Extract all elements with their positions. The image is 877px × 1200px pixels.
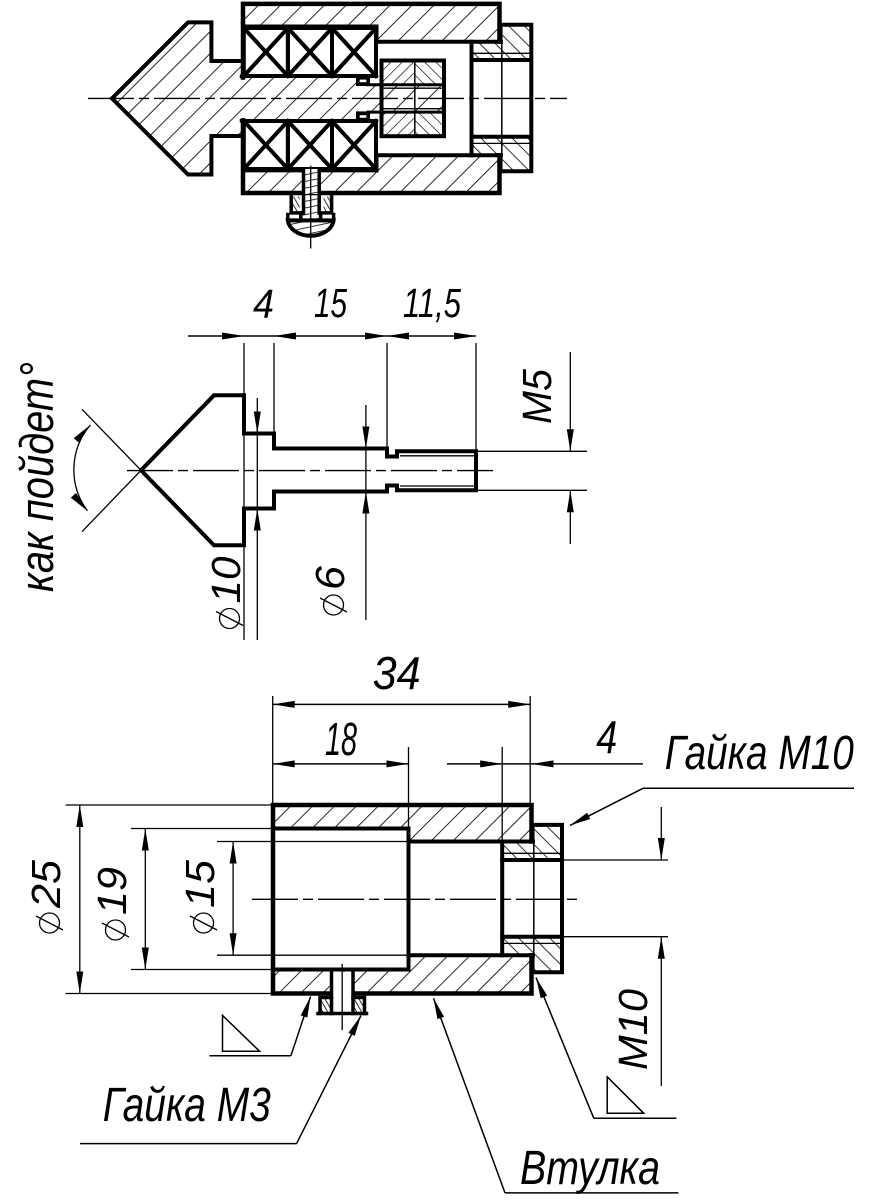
- centerline axis top view: [88, 97, 567, 99]
- phi19 dimension: [131, 828, 277, 830]
- retaining ring bottom: [356, 111, 370, 120]
- svg-text:как пойдет°: как пойдет°: [10, 362, 63, 592]
- M3 screw centerline: [341, 964, 343, 1030]
- nut M10 flange: [533, 825, 535, 972]
- M3 screw shank thread: [304, 170, 320, 213]
- phi10 dimension: [256, 398, 258, 640]
- dimension 34: [272, 696, 274, 805]
- angle extension thin lines: [82, 409, 150, 479]
- striker (боёк) cone+collar hatched body: [112, 22, 242, 174]
- svg-text:М10: М10: [610, 989, 656, 1070]
- svg-text:18: 18: [325, 713, 357, 765]
- striker part outline: [141, 395, 476, 545]
- M5 dimension: [477, 450, 587, 452]
- M3 nut: [320, 998, 365, 1014]
- M3 hole white: [332, 972, 354, 997]
- nut M10 insert face: [470, 42, 474, 156]
- M3 hole walls: [330, 970, 334, 1014]
- phi25 dimension: [66, 804, 274, 806]
- nut M10 thread lines: [502, 858, 562, 862]
- bore phi15 lines: [277, 841, 409, 843]
- svg-text:19: 19: [89, 867, 135, 915]
- nut M10 insert hatch bottom: [472, 137, 532, 172]
- nut M10 thread lines: [472, 58, 532, 62]
- retaining ring top: [356, 77, 370, 86]
- M3 screw hole white: [304, 169, 320, 194]
- nut M10 flange: [501, 25, 503, 172]
- svg-text:4: 4: [596, 711, 617, 763]
- sleeve bottom wall hatch: [273, 955, 532, 993]
- phi6 dimension: [365, 405, 367, 620]
- M3 screw centerline: [310, 166, 312, 249]
- svg-text:Гайка М10: Гайка М10: [665, 727, 854, 780]
- nut M10 insert hatch top: [472, 25, 532, 60]
- M3 nut under sleeve: [291, 197, 331, 213]
- angle dimension arc: [74, 425, 91, 511]
- dimension 4: [501, 747, 503, 842]
- nut M10 hatch top: [502, 825, 562, 860]
- sleeve outline: [243, 4, 500, 193]
- extension lines: [243, 343, 245, 640]
- nut M10 insert face: [500, 842, 504, 956]
- shaft phi6 lines: [242, 74, 357, 78]
- M5 thread thin lines: [400, 455, 476, 457]
- svg-text:15: 15: [177, 860, 223, 908]
- M5 nut and washer on striker end: [382, 61, 445, 137]
- svg-text:Втулка: Втулка: [520, 1142, 660, 1195]
- phi15 dimension: [217, 841, 277, 843]
- nut M10 hatch bottom: [502, 937, 562, 973]
- sleeve bore phi15 lines: [377, 40, 502, 44]
- svg-text:М5: М5: [514, 369, 560, 424]
- surface triangle right: [607, 1077, 644, 1114]
- svg-text:Гайка М3: Гайка М3: [103, 1079, 271, 1132]
- centerline axis bottom view: [252, 898, 580, 900]
- bore phi19 lines: [277, 827, 409, 831]
- svg-text:6: 6: [307, 566, 353, 590]
- surface triangle left: [223, 1015, 260, 1051]
- M10 dimension: [562, 859, 668, 861]
- spring section boxes bottom row: [244, 121, 376, 169]
- svg-text:11,5: 11,5: [403, 280, 461, 326]
- dimension 18: [408, 747, 410, 829]
- striker shaft hatched: [242, 76, 369, 121]
- bore step face: [407, 829, 411, 970]
- svg-text:34: 34: [373, 647, 421, 699]
- M5 thread end lines: [368, 83, 444, 86]
- dimension line 4 / 15 / 11,5: [188, 335, 476, 337]
- spring section boxes top row: [244, 28, 376, 76]
- sleeve bottom wall hatch: [241, 155, 500, 193]
- sleeve outline: [273, 805, 532, 994]
- label как пойдет: [10, 362, 63, 592]
- svg-text:25: 25: [23, 860, 69, 909]
- svg-text:10: 10: [203, 556, 249, 603]
- sleeve top wall hatch: [273, 805, 532, 842]
- centerline axis middle view: [127, 470, 493, 472]
- svg-text:15: 15: [314, 280, 347, 326]
- sleeve bore phi19 lines: [244, 25, 377, 29]
- sleeve top wall hatch: [241, 4, 500, 42]
- M3 screw shank walls: [302, 170, 306, 213]
- svg-text:4: 4: [253, 281, 274, 327]
- M3 screw dome head: [288, 215, 334, 221]
